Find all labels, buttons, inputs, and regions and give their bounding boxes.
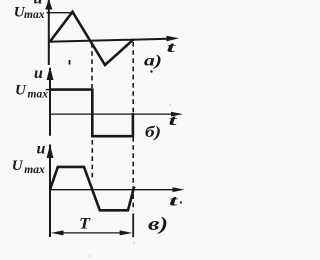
svg-text:U: U <box>12 158 24 174</box>
panel v: t-axis <box>50 189 174 191</box>
dashed line 2 (upper) <box>132 42 134 113</box>
svg-text:б): б) <box>145 124 161 141</box>
panel a: t-axis arrowhead <box>167 36 180 42</box>
svg-text:в): в) <box>148 214 168 235</box>
faint speck <box>169 104 171 106</box>
svg-text:max: max <box>24 164 45 176</box>
svg-text:u: u <box>34 0 43 8</box>
svg-text:u: u <box>34 65 43 82</box>
panel a: Umax level line <box>47 12 73 14</box>
panel b: t-axis <box>50 113 172 115</box>
dashed line 1 (lower) <box>91 140 93 181</box>
panel a: triangle wave <box>50 12 134 65</box>
panel b: t-axis arrowhead <box>171 112 183 117</box>
panel v: trapezoid wave <box>50 167 134 210</box>
svg-text:а): а) <box>144 53 162 70</box>
T dimension right arrowhead <box>120 230 133 235</box>
panel b: square wave <box>50 90 133 137</box>
panel a: t-axis <box>48 39 168 42</box>
panel v: u-axis arrowhead <box>47 145 54 159</box>
T dimension right tick <box>132 214 134 238</box>
dashed line 2 (lower) <box>132 137 134 211</box>
svg-text:max: max <box>24 9 45 21</box>
faint speck <box>133 242 135 244</box>
T dimension left arrowhead <box>51 230 64 235</box>
dashed line 1 (upper) <box>91 43 93 88</box>
svg-text:U: U <box>15 83 27 99</box>
svg-text:max: max <box>28 88 49 100</box>
panel v: dot after t <box>180 201 182 203</box>
panel a: u-axis arrowhead <box>45 0 52 10</box>
noise dash artifact <box>69 60 71 65</box>
svg-text:u: u <box>37 141 46 158</box>
panel b: u-axis <box>49 68 51 136</box>
noise dot <box>150 70 152 72</box>
panel v: t-axis arrowhead <box>173 187 185 192</box>
T dimension line <box>57 232 126 234</box>
faint speck <box>89 255 91 257</box>
svg-text:T: T <box>79 216 91 233</box>
panel v: u-axis <box>49 145 51 238</box>
panel a: u-axis <box>48 0 50 65</box>
panel b: Umax tick <box>46 89 51 91</box>
panel b: u-axis arrowhead <box>47 67 54 81</box>
